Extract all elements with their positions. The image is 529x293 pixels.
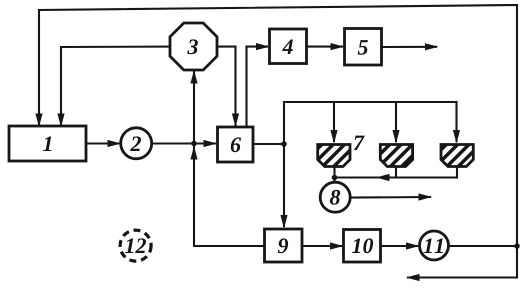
box 4	[270, 29, 307, 64]
circle 8	[320, 182, 350, 212]
label 9	[278, 238, 288, 253]
wire box 9 to box 10	[302, 245, 341, 247]
label 8	[330, 190, 340, 205]
wire octagon 3 left output to box 1	[61, 47, 170, 124]
label 4	[282, 40, 293, 55]
wire drop to hopper C	[455, 102, 457, 141]
label 11	[424, 239, 443, 254]
circle 11	[420, 231, 449, 260]
label 10	[352, 238, 373, 253]
wire hopper header	[284, 101, 457, 103]
hopper B of 7	[380, 145, 412, 167]
arrow bottom feedback pointing left	[406, 274, 420, 281]
arrow up into octagon 3 bottom	[190, 70, 197, 84]
label 2	[130, 136, 141, 151]
arrow into hopper B	[392, 130, 399, 144]
circle 2	[121, 128, 152, 159]
box 1	[9, 126, 86, 161]
wire box 4 to box 5	[307, 46, 343, 48]
wire feedback bottom: right vertical down and left arrow	[408, 246, 517, 278]
arrow into box 10	[330, 242, 344, 249]
arrow into box 1 outer	[35, 114, 42, 128]
octagon 3	[170, 23, 217, 70]
wire riser x=284 header to box 9	[283, 102, 285, 226]
wire stub hopper A to circle 8	[333, 166, 335, 183]
label 7	[354, 136, 365, 150]
wire box 6 right to riser x=284	[253, 143, 284, 145]
label 6	[231, 137, 241, 152]
wire drop to hopper A	[333, 102, 335, 141]
label 1	[43, 137, 51, 152]
junction dot collector to circle 8	[332, 175, 338, 181]
arrow into circle 11	[406, 242, 420, 249]
wire collector under hoppers	[335, 176, 458, 178]
hopper C of 7	[441, 145, 473, 167]
arrow left on collector	[376, 174, 390, 181]
arrow into box 6 left	[204, 140, 218, 147]
wire circle 11 to right vertical	[449, 245, 518, 247]
junction dot circle 11 line to right vertical	[514, 243, 520, 249]
arrow up into junction on riser x=194	[190, 146, 197, 160]
wire drop to hopper B	[395, 102, 397, 141]
label 3	[187, 39, 198, 54]
wire octagon 3 right to box 6 top	[217, 47, 236, 125]
box 10	[344, 230, 381, 263]
dashed circle 12	[120, 230, 151, 261]
arrow down into box 9	[280, 215, 287, 229]
label 12	[125, 238, 146, 253]
wire circle 2 to box 6	[152, 142, 215, 144]
wire stub hopper C	[456, 166, 458, 178]
arrow down into box 6 top	[232, 114, 239, 128]
junction dot box6 right riser	[281, 141, 287, 147]
hopper A of 7	[318, 145, 350, 167]
arrow box 5 output	[425, 43, 439, 50]
junction dot riser/main line	[191, 141, 197, 147]
wire box 10 to circle 11	[381, 245, 417, 247]
arrow into box 5	[331, 43, 345, 50]
box 5	[345, 29, 382, 66]
wire long vertical riser x=194 from box 9 line up to octagon 3	[194, 71, 265, 246]
label 5	[358, 40, 368, 55]
wire box 5 output	[382, 46, 437, 48]
arrow into hopper A	[330, 130, 337, 144]
wire box 1 to circle 2	[86, 142, 119, 144]
wire box 6 top up to box 4	[247, 47, 268, 127]
box 9	[265, 229, 303, 262]
arrow circle 8 output	[419, 193, 433, 200]
box 6	[218, 127, 254, 162]
wire feedback top outer: from circle 11 up over the top into box 1	[39, 5, 517, 246]
arrow into box 1 inner	[57, 114, 64, 128]
wire stub hopper B	[395, 166, 397, 178]
arrow into circle 2	[108, 140, 122, 147]
arrow into hopper C	[453, 130, 460, 144]
arrow into box 4	[256, 43, 270, 50]
wire circle 8 output	[350, 196, 430, 199]
